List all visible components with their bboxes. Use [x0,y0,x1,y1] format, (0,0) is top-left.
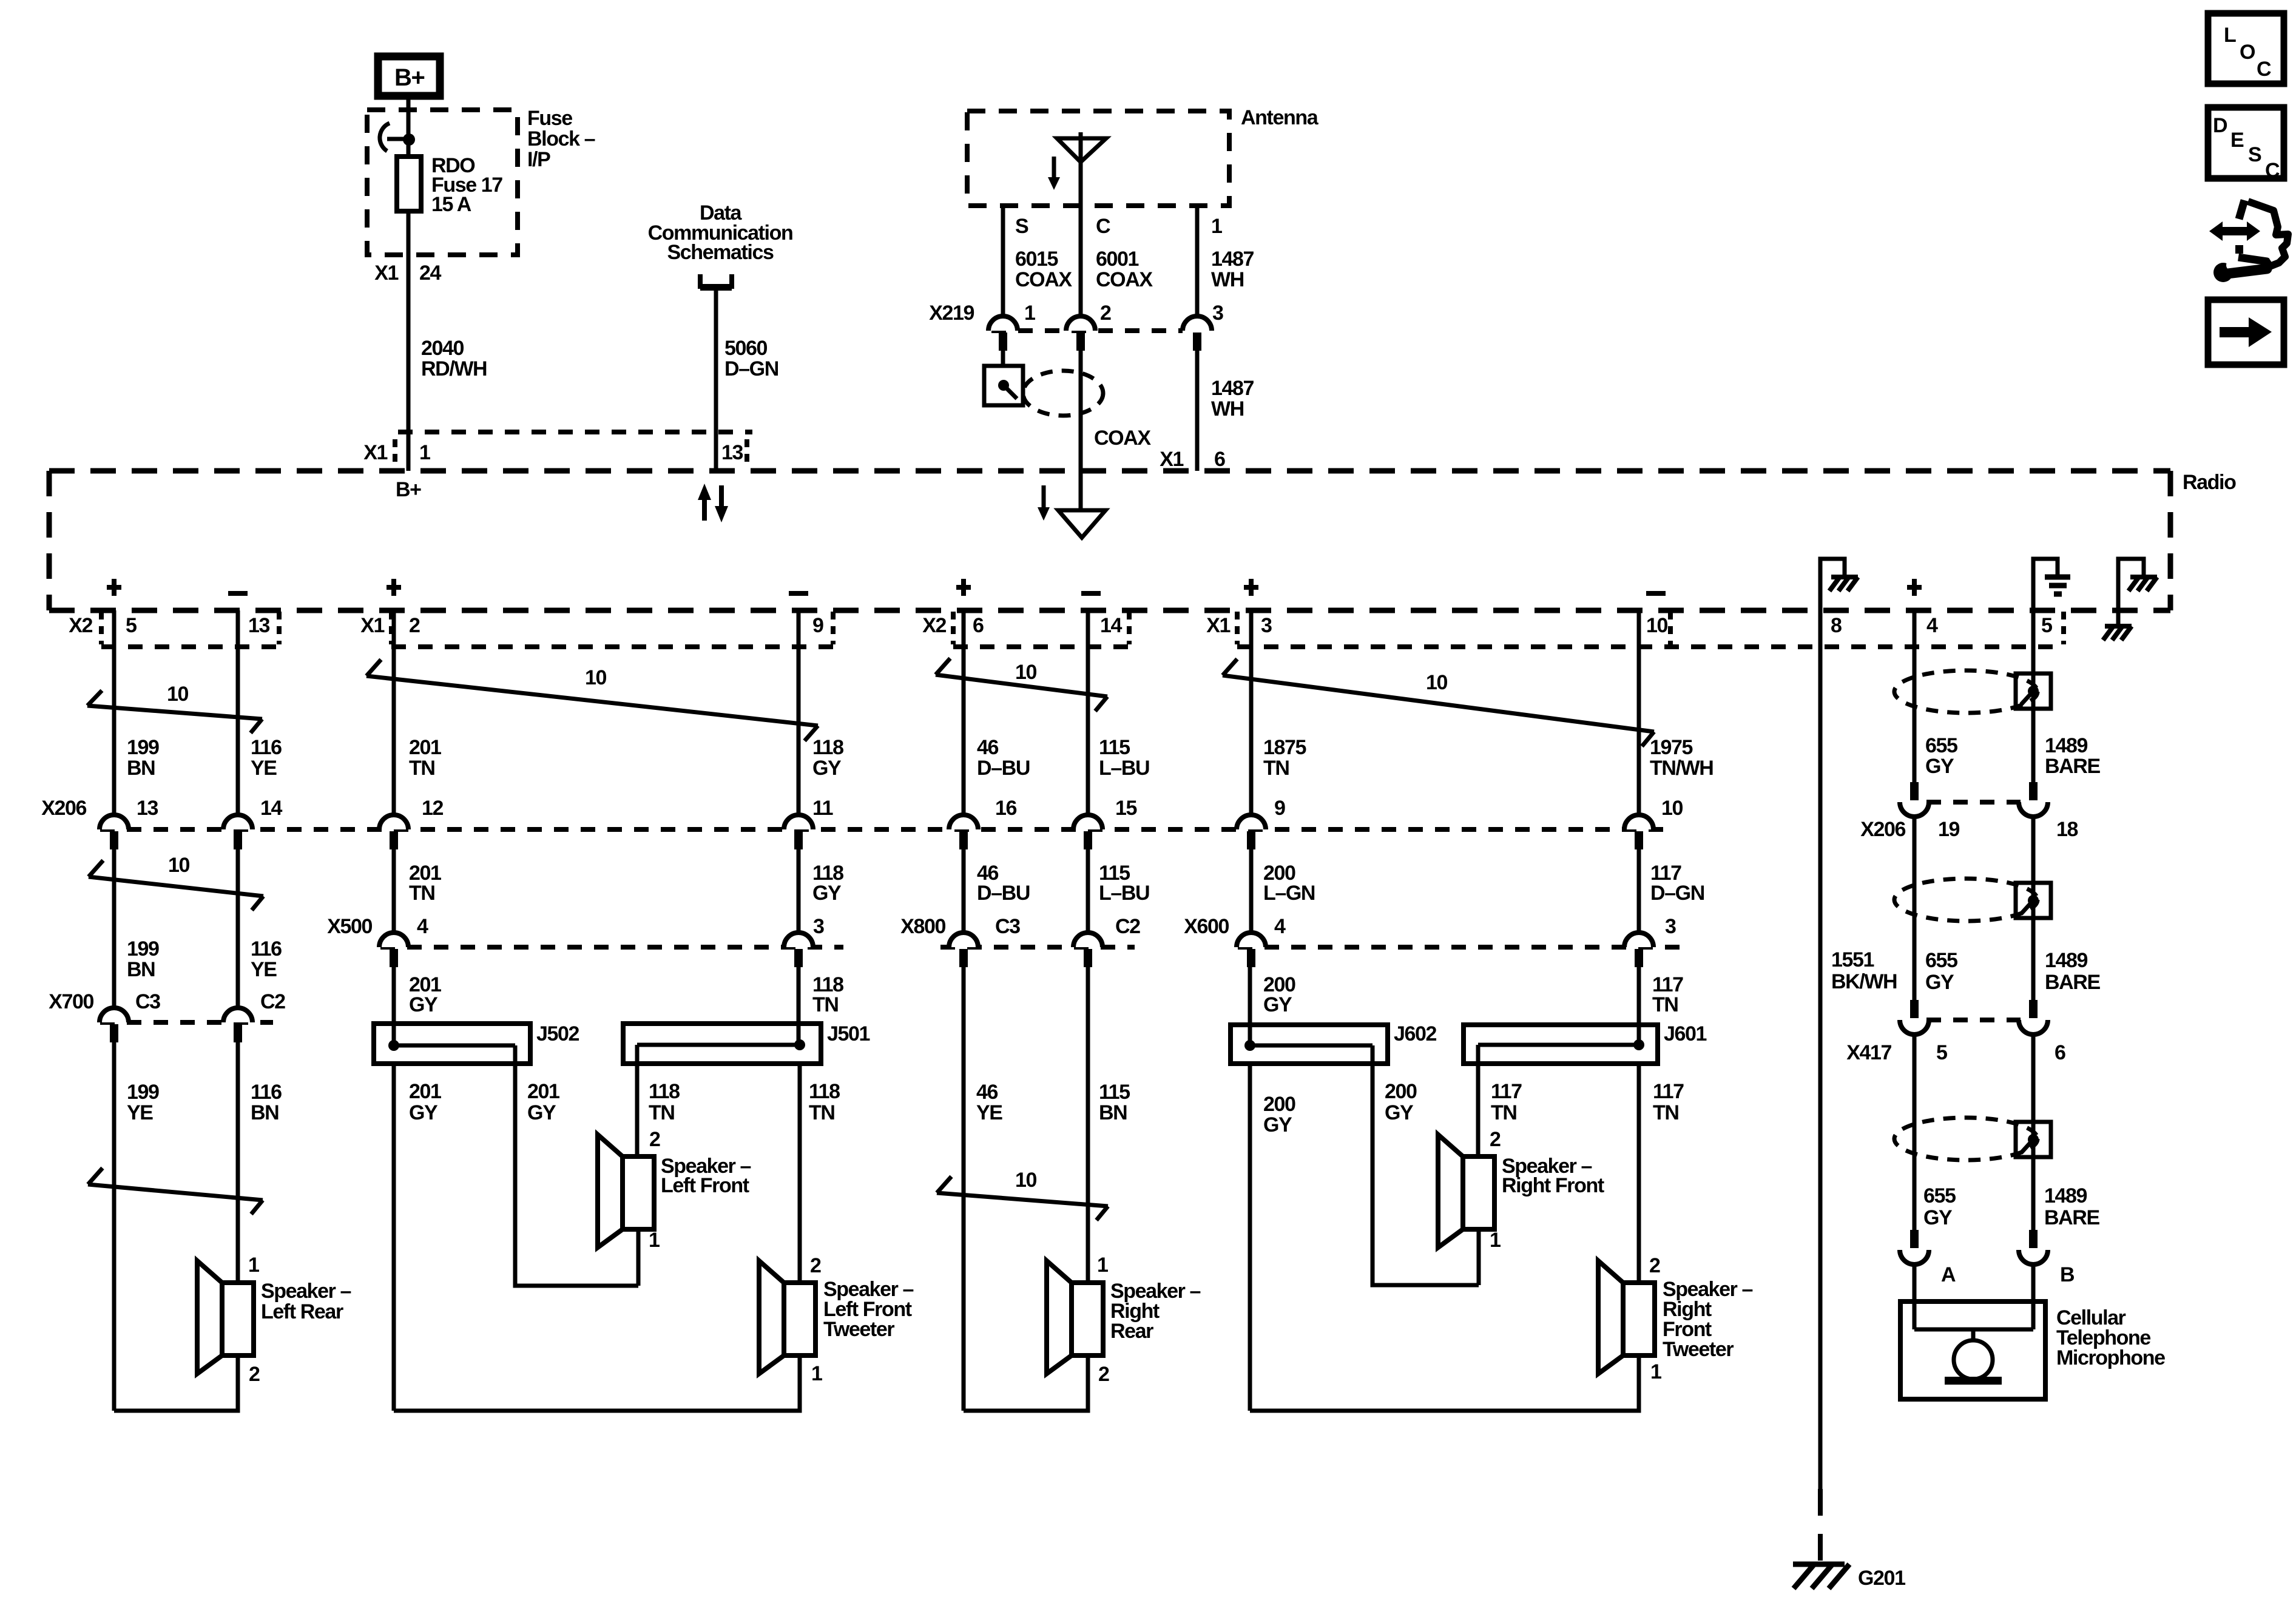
svg-text:13: 13 [721,441,743,464]
svg-text:10: 10 [1015,1169,1037,1192]
svg-text:BN: BN [1099,1101,1127,1124]
wire 1489 BARE X206 to X417 [2031,817,2036,1001]
connector X206 main row [41,797,1683,849]
twisted pair RF upper [1223,659,1654,746]
battery feed B+ terminal box [378,56,440,96]
wire LF+ X500 to J502 [392,967,396,1045]
svg-text:D–BU: D–BU [977,882,1030,905]
shield twist symbol 3 [1894,1118,2051,1160]
svg-text:RD/WH: RD/WH [421,357,487,380]
wire LR speaker loop [114,1355,238,1411]
svg-text:2: 2 [649,1128,660,1151]
svg-text:COAX: COAX [1015,268,1072,291]
cellular telephone microphone [1900,1301,2165,1399]
svg-text:5: 5 [2041,614,2052,637]
wire 1489 BARE label 3 [2044,1184,2099,1229]
shield twist symbol 1 [1894,670,2051,713]
svg-text:B+: B+ [394,64,424,91]
svg-text:46: 46 [977,736,999,759]
speaker right front [1438,1128,1604,1285]
svg-text:14: 14 [260,797,283,820]
wire 201 GY right output label [527,1080,559,1124]
wire J502 left output to loop [392,1064,396,1411]
svg-text:1: 1 [1211,215,1222,238]
svg-text:116: 116 [251,1081,282,1104]
svg-text:GY: GY [812,757,842,780]
svg-text:11: 11 [812,797,833,820]
svg-text:655: 655 [1925,734,1957,757]
connector X417 [1846,1000,2065,1064]
wire 200 GY left output label [1263,1093,1295,1136]
wire LF+ radio pin2 to X206 [392,610,396,815]
svg-text:GY: GY [1923,1206,1953,1229]
wire J602 left output to loop [1248,1064,1252,1411]
wire 655 GY X206 to X417 [1913,817,1917,1001]
svg-text:16: 16 [995,797,1017,820]
svg-text:3: 3 [1212,302,1223,325]
wire 118 TN label [812,973,843,1016]
wire LF- X500 to J501 [797,967,801,1045]
svg-text:3: 3 [813,915,824,938]
wire J501 left output to speaker LF pin2 [635,1064,640,1156]
svg-text:TN: TN [409,757,435,780]
svg-text:13: 13 [248,614,270,637]
connector X800 [900,915,1140,967]
svg-text:46: 46 [976,1081,998,1104]
svg-text:X1: X1 [1160,448,1183,471]
fuse block label [527,107,595,171]
svg-text:5060: 5060 [724,337,768,360]
wire LF- X206 to X500 [797,849,801,933]
wire 2040 RD/WH label [421,337,487,380]
svg-text:G201: G201 [1858,1567,1905,1590]
svg-text:C2: C2 [1115,915,1140,938]
wire 1489 BARE radio pin5 to X206 [2031,610,2036,783]
svg-text:1: 1 [811,1362,822,1385]
wire 201 GY left output label [409,1080,441,1124]
svg-text:10: 10 [585,666,607,689]
radio bottom connector row [69,612,2064,647]
wire RF+ X206 to X600 [1249,849,1254,933]
svg-text:GY: GY [409,993,438,1016]
svg-text:TN: TN [1653,1101,1679,1124]
wire RR- X206 to X800 [1086,849,1090,933]
wire RF loop [1250,1355,1639,1411]
svg-text:10: 10 [1661,797,1683,820]
svg-text:201: 201 [409,736,441,759]
wire C 6001 COAX [1081,206,1153,316]
wire 199 YE label [127,1081,159,1124]
svg-text:I/P: I/P [527,148,550,171]
wire 655 GY label 1 [1925,734,1957,778]
wire RF- X600 to J601 [1637,967,1641,1045]
svg-text:X800: X800 [900,915,945,938]
wire RR- X800 to speaker [1086,967,1090,1283]
svg-text:116: 116 [251,937,282,960]
wire 1489 BARE X417 to B [2031,1035,2036,1231]
twisted pair RR upper [936,658,1107,711]
connector X206 microphone row [1860,782,2078,841]
svg-text:COAX: COAX [1096,268,1153,291]
svg-text:J502: J502 [536,1022,579,1045]
svg-text:4: 4 [1926,614,1938,637]
svg-text:BARE: BARE [2045,971,2100,994]
wire 118 GY label 2 [812,862,843,905]
wire 1875 TN label [1263,736,1306,780]
wire RF- radio pin10 to X206 [1637,610,1641,815]
data arrows at radio pin 13 [698,484,728,522]
splice J501 [623,1022,870,1064]
wire 1489 BARE label 2 [2045,949,2100,994]
wire 201 TN label [409,736,441,780]
svg-text:Block –: Block – [527,127,595,150]
wire J601 left output to speaker RF pin2 [1476,1064,1481,1156]
svg-text:X417: X417 [1846,1041,1891,1064]
svg-text:GY: GY [1263,1113,1292,1136]
radio dashed box [49,471,2236,610]
svg-text:201: 201 [527,1080,559,1103]
svg-text:6: 6 [973,614,984,637]
wire 201 TN label 2 [409,862,441,905]
speaker left front [598,1128,751,1286]
svg-text:BN: BN [127,958,155,981]
svg-text:YE: YE [976,1101,1002,1124]
antenna termination inside radio [1038,485,1106,538]
svg-text:TN: TN [1263,757,1289,780]
radio output polarity labels [107,579,1922,596]
wire A to microphone [1913,1264,1917,1329]
svg-text:1: 1 [1097,1254,1108,1277]
connector X600 [1184,915,1681,967]
svg-text:116: 116 [251,736,282,759]
svg-text:19: 19 [1938,818,1960,841]
svg-text:TN/WH: TN/WH [1650,757,1713,780]
wire 655 GY X417 to A [1913,1035,1917,1231]
svg-text:E: E [2230,129,2244,152]
svg-text:1875: 1875 [1263,736,1306,759]
wire 199 BN label [127,736,159,780]
wire J602 right output to speaker RF pin1 [1373,1047,1479,1285]
wire 115 BN label [1099,1081,1130,1124]
svg-text:5: 5 [126,614,137,637]
svg-text:Rear: Rear [1110,1320,1153,1343]
svg-text:2: 2 [1490,1128,1501,1151]
svg-text:C: C [2257,58,2271,81]
svg-text:13: 13 [137,797,158,820]
wire 115 L-BU label [1099,736,1149,780]
svg-text:L–BU: L–BU [1099,757,1149,780]
svg-text:18: 18 [2056,818,2078,841]
svg-text:2: 2 [1098,1363,1109,1386]
wire RF- X206 to X600 [1637,849,1641,933]
svg-text:X500: X500 [327,915,372,938]
svg-text:X700: X700 [49,990,93,1013]
svg-text:GY: GY [1263,993,1292,1016]
svg-text:BARE: BARE [2045,755,2100,778]
svg-text:X1: X1 [1206,614,1230,637]
svg-text:C3: C3 [135,990,160,1013]
twisted pair LR middle [89,854,263,910]
svg-text:15 A: 15 A [431,193,471,216]
icon hand with arrow and wrench [2209,200,2288,282]
wire 200 GY label [1263,973,1295,1016]
svg-text:4: 4 [1274,915,1286,938]
svg-text:Speaker –: Speaker – [261,1280,351,1303]
svg-text:1487: 1487 [1211,248,1254,271]
svg-text:TN: TN [1652,993,1678,1016]
svg-text:GY: GY [1925,971,1954,994]
wire RR+ X206 to X800 [962,849,966,933]
svg-text:1: 1 [1024,302,1035,325]
splice J602 [1231,1022,1437,1064]
coax shield ground square [984,351,1023,405]
svg-text:TN: TN [1491,1101,1517,1124]
svg-text:BN: BN [127,757,155,780]
svg-text:2: 2 [409,614,420,637]
svg-text:B+: B+ [396,478,421,501]
svg-text:1: 1 [1650,1360,1661,1383]
svg-text:2040: 2040 [421,337,464,360]
wire 655 GY label 2 [1925,949,1957,994]
svg-text:L: L [2224,24,2236,47]
svg-text:J501: J501 [827,1022,870,1045]
icon description box DESC [2208,107,2284,182]
splice J601 [1464,1022,1707,1064]
wire LF+ X206 to X500 [392,849,396,933]
svg-text:GY: GY [1925,755,1954,778]
data communication schematics callout [648,201,793,288]
svg-text:Tweeter: Tweeter [1663,1338,1734,1361]
svg-text:199: 199 [127,937,159,960]
svg-text:TN: TN [809,1101,835,1124]
svg-text:C: C [1096,215,1110,238]
svg-text:1489: 1489 [2045,949,2088,972]
splice J502 [374,1022,579,1064]
svg-text:1489: 1489 [2044,1184,2087,1207]
svg-text:6: 6 [2055,1041,2065,1064]
antenna symbol [1057,132,1106,206]
twisted pair RR lower [937,1169,1108,1220]
svg-text:1: 1 [649,1229,660,1252]
wire 116 YE label [251,736,282,780]
svg-text:14: 14 [1100,614,1123,637]
svg-text:S: S [1015,215,1028,238]
svg-text:BARE: BARE [2044,1206,2099,1229]
wire J501 right output to tweeter LF [798,1064,802,1283]
wire 655 GY label 3 [1923,1184,1956,1229]
wire 1 1487 WH [1197,206,1254,316]
svg-text:1489: 1489 [2045,734,2088,757]
svg-text:15: 15 [1115,797,1137,820]
svg-text:COAX: COAX [1094,427,1151,450]
wire 655 GY radio pin4 to X206 [1913,610,1917,783]
svg-text:YE: YE [127,1101,153,1124]
svg-text:C: C [2265,159,2280,182]
wire 1551 BK/WH ground run [1820,559,1897,1562]
wire 201 GY label [409,973,441,1016]
wire 118 TN right output label [809,1080,840,1124]
svg-text:D–GN: D–GN [724,357,778,380]
wire 199 BN label 2 [127,937,159,981]
svg-text:D–BU: D–BU [977,757,1030,780]
svg-text:L–GN: L–GN [1263,882,1315,905]
svg-text:3: 3 [1665,915,1676,938]
svg-text:TN: TN [649,1101,675,1124]
wire S 6015 COAX [1003,206,1072,316]
svg-text:1: 1 [419,441,430,464]
svg-text:655: 655 [1923,1184,1956,1207]
svg-text:Antenna: Antenna [1241,106,1319,129]
svg-text:X219: X219 [929,302,974,325]
svg-text:GY: GY [409,1101,438,1124]
svg-text:GY: GY [1385,1101,1414,1124]
wire RF+ radio pin3 to X206 [1249,610,1254,815]
wire 116 YE label 2 [251,937,282,981]
wire 117 TN left output label [1491,1080,1522,1124]
svg-text:TN: TN [409,882,435,905]
svg-text:C3: C3 [995,915,1020,938]
wire 1975 TN/WH label [1650,736,1713,780]
svg-text:A: A [1941,1263,1956,1286]
wire COAX to radio [1081,351,1151,510]
svg-text:118: 118 [649,1080,680,1103]
svg-text:BN: BN [251,1101,279,1124]
svg-text:1: 1 [1490,1229,1501,1252]
speaker right front tweeter [1598,1254,1753,1383]
svg-text:10: 10 [1015,661,1037,684]
svg-text:2: 2 [1649,1254,1660,1277]
connector pins A B [1900,1230,2075,1286]
svg-text:X600: X600 [1184,915,1229,938]
speaker left rear [197,1254,351,1386]
wire 46 D-BU label [977,736,1030,780]
svg-text:4: 4 [417,915,428,938]
wire B to microphone [2031,1264,2036,1329]
svg-text:GY: GY [527,1101,556,1124]
svg-text:200: 200 [1385,1080,1417,1103]
connector X219 [929,302,1223,351]
wire B+ to fuse [407,100,411,158]
svg-text:200: 200 [1263,1093,1295,1116]
radio internal ground above pin 8 [1820,559,1858,610]
wire J601 right output to tweeter RF [1637,1064,1641,1283]
svg-text:X1: X1 [363,441,387,464]
antenna dashed box [967,106,1319,206]
wire RR+ X800 to loop [962,967,966,1411]
svg-text:X206: X206 [1860,818,1905,841]
svg-text:1: 1 [248,1254,259,1277]
svg-text:2: 2 [249,1363,260,1386]
svg-text:6001: 6001 [1096,248,1139,271]
wire RR+ radio pin6 to X206 [962,610,966,815]
svg-text:201: 201 [409,1080,441,1103]
svg-text:10: 10 [168,854,190,877]
svg-text:199: 199 [127,1081,159,1104]
svg-text:J602: J602 [1394,1022,1437,1045]
connector X700 [49,990,285,1042]
svg-text:118: 118 [809,1080,840,1103]
radio internal earth ground above pin 5 [2033,559,2070,610]
wire 115 L-BU label 2 [1099,862,1149,905]
wire J502 right output to speaker LF pin1 [515,1047,638,1286]
wire 116 BN label [251,1081,282,1124]
svg-text:Left Rear: Left Rear [261,1300,343,1323]
svg-text:X2: X2 [69,614,92,637]
svg-text:2: 2 [1100,302,1111,325]
ground G201 [1793,1564,1905,1590]
svg-text:117: 117 [1491,1080,1522,1103]
svg-text:X1: X1 [360,614,384,637]
svg-text:6: 6 [1214,448,1225,471]
wire 117 TN label [1652,973,1683,1016]
svg-text:X206: X206 [41,797,86,820]
svg-text:10: 10 [167,683,189,706]
wire 117 D-GN label [1650,862,1704,905]
icon locator box LOC [2208,13,2284,84]
svg-text:118: 118 [812,736,843,759]
svg-text:1551: 1551 [1831,948,1874,971]
twisted pair LF upper [366,660,818,741]
twisted pair LR lower [88,1168,263,1214]
wire LR- radio pin13 to X206 [236,610,240,815]
wire LF- radio pin9 to X206 [797,610,801,815]
coax shield dashed ellipse [1023,371,1103,416]
svg-text:YE: YE [251,757,277,780]
svg-text:115: 115 [1099,1081,1130,1104]
svg-text:10: 10 [1426,671,1448,694]
antenna down arrow [1048,157,1060,190]
wire RF+ X600 to J602 [1248,967,1252,1045]
speaker left front tweeter [759,1254,914,1385]
svg-text:9: 9 [812,614,823,637]
svg-text:L–BU: L–BU [1099,882,1149,905]
svg-text:TN: TN [812,993,839,1016]
svg-text:S: S [2248,143,2261,166]
wire LR- X206 to X700 [236,849,240,1009]
svg-text:O: O [2240,41,2255,64]
fuse clip hook [380,123,415,151]
svg-text:B: B [2060,1263,2075,1286]
svg-text:Tweeter: Tweeter [823,1318,894,1341]
radio internal chassis grounds right edge [2103,559,2157,640]
svg-text:C2: C2 [260,990,285,1013]
wire LF loop [394,1355,800,1411]
svg-text:6015: 6015 [1015,248,1058,271]
wire 46 D-BU label 2 [977,862,1030,905]
svg-text:2: 2 [810,1254,821,1277]
connector X1 row at radio top [363,432,752,468]
svg-text:WH: WH [1211,397,1244,420]
svg-text:10: 10 [1646,614,1668,637]
wire 118 TN left output label [649,1080,680,1124]
svg-text:X2: X2 [922,614,946,637]
svg-text:D–GN: D–GN [1650,882,1704,905]
wire RR loop [964,1355,1088,1411]
svg-text:1487: 1487 [1211,377,1254,400]
svg-text:117: 117 [1653,1080,1684,1103]
svg-text:YE: YE [251,958,277,981]
svg-text:3: 3 [1261,614,1272,637]
svg-text:Schematics: Schematics [667,241,774,264]
wire LR+ X700 to loop [112,1042,116,1411]
svg-text:12: 12 [422,797,444,820]
svg-text:BK/WH: BK/WH [1831,970,1897,993]
twisted pair LR upper [87,683,262,733]
shield twist symbol 2 [1894,879,2051,921]
wire 46 YE label [976,1081,1002,1124]
connector X500 [327,915,843,967]
svg-text:115: 115 [1099,736,1130,759]
